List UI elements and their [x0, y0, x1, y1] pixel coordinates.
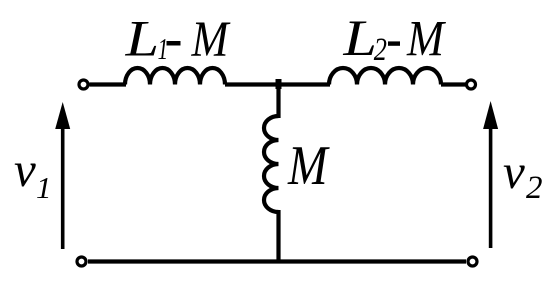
terminal top-right — [467, 80, 476, 89]
wire top-left segment — [90, 82, 127, 86]
wire top-center right segment — [279, 82, 331, 86]
svg-text:M: M — [191, 12, 231, 67]
svg-text:M: M — [287, 135, 330, 197]
node junction center — [276, 79, 282, 89]
wire top-right segment — [441, 82, 466, 86]
inductor L1-M — [125, 68, 225, 84]
arrow v2 (right, pointing up) — [489, 124, 493, 248]
inductor L2-M — [329, 68, 441, 84]
terminal bottom-left — [77, 257, 86, 266]
wire center vertical upper — [276, 85, 280, 119]
svg-text:2: 2 — [374, 33, 387, 68]
svg-text:1: 1 — [158, 31, 169, 66]
svg-text:v: v — [14, 142, 36, 197]
terminal top-left — [79, 80, 88, 89]
svg-text:L: L — [125, 12, 160, 67]
svg-text:2: 2 — [526, 170, 543, 206]
svg-text:M: M — [406, 12, 446, 67]
wire top-center left segment — [225, 82, 279, 86]
wire bottom — [88, 259, 466, 263]
svg-text:L: L — [342, 12, 377, 67]
inductor M — [264, 116, 279, 212]
wire center vertical lower — [276, 210, 280, 263]
svg-text:v: v — [503, 144, 525, 199]
terminal bottom-right — [468, 257, 477, 266]
svg-text:1: 1 — [36, 170, 52, 205]
arrow v1 (left, pointing up) — [61, 124, 65, 249]
